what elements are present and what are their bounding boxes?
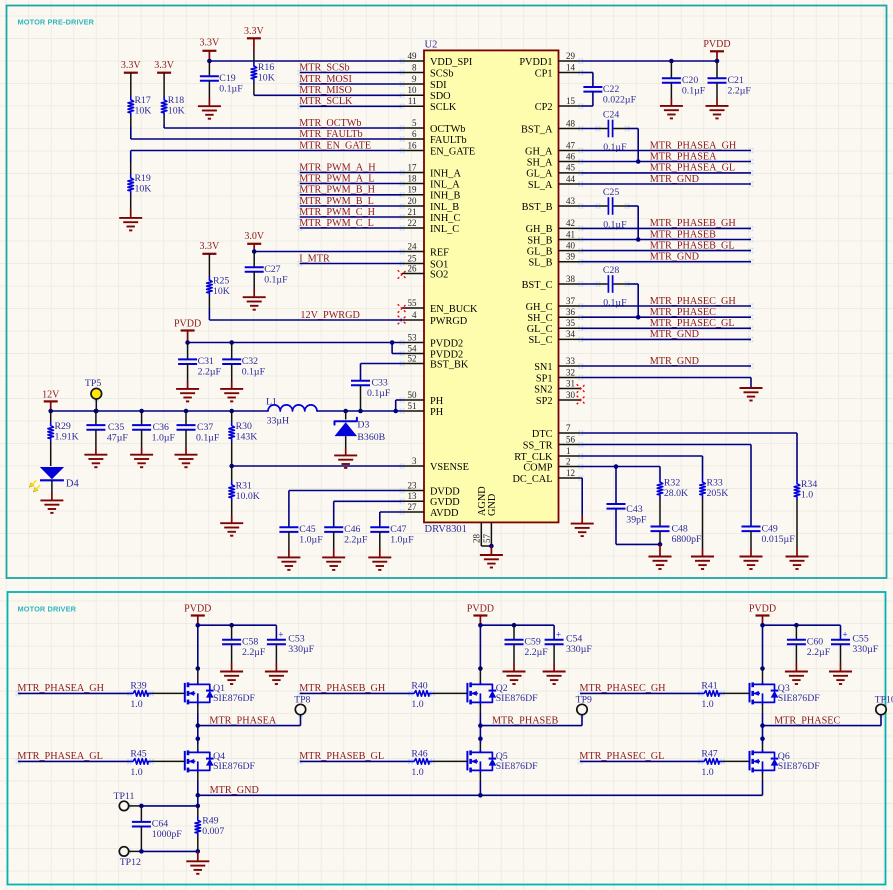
wire TP11 node bbox=[141, 805, 197, 807]
wire PVDD to Q drain bbox=[762, 625, 764, 668]
svg-text:DC_CAL: DC_CAL bbox=[512, 474, 552, 485]
svg-text:INL_C: INL_C bbox=[430, 224, 459, 235]
svg-text:SIE876DF: SIE876DF bbox=[496, 761, 538, 772]
svg-text:0.1µF: 0.1µF bbox=[196, 432, 220, 443]
svg-text:C32: C32 bbox=[242, 356, 258, 367]
svg-text:6800pF: 6800pF bbox=[672, 534, 702, 545]
ground for C45 bbox=[277, 556, 300, 558]
svg-text:1.0: 1.0 bbox=[130, 767, 142, 778]
svg-text:SL_C: SL_C bbox=[528, 335, 552, 346]
pin 9 SDI (left) bbox=[402, 83, 424, 85]
capacitor C27 0.1uF bbox=[253, 252, 255, 268]
capacitor C49 0.015uF bbox=[742, 526, 761, 528]
pin 25 SO1 (left) bbox=[402, 263, 424, 265]
svg-text:C25: C25 bbox=[603, 187, 619, 198]
capacitor C46 2.2uF bbox=[324, 526, 343, 528]
svg-text:PVDD: PVDD bbox=[174, 319, 201, 330]
svg-text:C27: C27 bbox=[264, 264, 280, 275]
svg-text:BST_A: BST_A bbox=[521, 124, 553, 135]
node PVDD junction bbox=[760, 623, 765, 628]
svg-text:MTR_PHASEA: MTR_PHASEA bbox=[650, 151, 717, 162]
wire GVDD pin 13 to C46 bbox=[334, 500, 402, 502]
svg-text:36: 36 bbox=[566, 307, 576, 317]
LED D4 emission arrows bbox=[29, 483, 38, 493]
svg-text:PVDD2: PVDD2 bbox=[430, 338, 463, 349]
svg-text:R45: R45 bbox=[130, 748, 146, 759]
svg-text:D3: D3 bbox=[357, 420, 369, 431]
svg-text:41: 41 bbox=[566, 229, 575, 239]
ground for AGND/GND bbox=[490, 546, 492, 555]
pin 23 DVDD (left) bbox=[402, 490, 424, 492]
power flag 3.0V bbox=[247, 243, 261, 245]
svg-text:12V_PWRGD: 12V_PWRGD bbox=[300, 310, 359, 321]
svg-text:REF: REF bbox=[430, 247, 449, 258]
resistor R25 10K bbox=[208, 254, 210, 277]
svg-text:INH_B: INH_B bbox=[430, 191, 460, 202]
wire TP12 node bbox=[141, 850, 197, 852]
svg-text:C22: C22 bbox=[603, 84, 619, 95]
transistor Q4 SIE876DF bbox=[184, 751, 186, 771]
svg-text:17: 17 bbox=[408, 162, 418, 172]
svg-text:R39: R39 bbox=[130, 680, 146, 691]
svg-text:3.3V: 3.3V bbox=[200, 241, 221, 252]
svg-text:50: 50 bbox=[408, 390, 418, 400]
svg-text:SDI: SDI bbox=[430, 80, 447, 91]
svg-text:42: 42 bbox=[566, 218, 575, 228]
capacitor C35 47uF bbox=[94, 409, 99, 414]
wire VSENSE to pin 3 bbox=[232, 465, 402, 467]
pin 44 SL_A (right) bbox=[559, 183, 581, 185]
svg-text:C24: C24 bbox=[603, 110, 619, 121]
svg-text:25: 25 bbox=[408, 253, 418, 263]
svg-text:20: 20 bbox=[408, 196, 418, 206]
svg-text:MTR_PHASEC_GL: MTR_PHASEC_GL bbox=[650, 318, 735, 329]
svg-text:GND: GND bbox=[487, 493, 498, 516]
svg-text:C47: C47 bbox=[390, 524, 406, 535]
svg-text:PVDD1: PVDD1 bbox=[519, 57, 552, 68]
capacitor C43 39pF bbox=[615, 467, 617, 505]
svg-text:2.2µF: 2.2µF bbox=[807, 647, 831, 658]
svg-text:0.1µF: 0.1µF bbox=[264, 275, 288, 286]
no-connect pin 4 bbox=[398, 316, 407, 325]
wire PVDD rail bbox=[763, 624, 841, 626]
resistor R45 1.0 (gate) bbox=[130, 759, 152, 765]
pin 43 BST_B (right) bbox=[559, 205, 581, 207]
svg-text:MTR_PHASEB_GL: MTR_PHASEB_GL bbox=[650, 240, 735, 251]
pin 55 EN_BUCK (left) bbox=[402, 307, 424, 309]
svg-text:32: 32 bbox=[566, 367, 575, 377]
svg-text:2: 2 bbox=[566, 456, 571, 466]
no-connect pin 55 bbox=[398, 304, 407, 313]
svg-text:MOTOR PRE-DRIVER: MOTOR PRE-DRIVER bbox=[18, 18, 95, 27]
svg-text:MTR_PWM_C_L: MTR_PWM_C_L bbox=[299, 218, 374, 229]
svg-text:GL_B: GL_B bbox=[527, 246, 553, 257]
capacitor C20 0.1uF bbox=[670, 61, 672, 78]
svg-text:MTR_GND: MTR_GND bbox=[210, 785, 259, 796]
capacitor C24 0.1µF bootstrap bbox=[581, 128, 598, 130]
pin 52 BST_BK (left) bbox=[402, 363, 424, 365]
pin 27 AVDD (left) bbox=[402, 511, 424, 513]
diode D3 B360B bbox=[343, 409, 348, 414]
capacitor C25 0.1µF bootstrap bbox=[581, 205, 598, 207]
svg-text:L1: L1 bbox=[266, 397, 277, 408]
svg-text:3.3V: 3.3V bbox=[200, 38, 221, 49]
svg-text:MTR_PHASEC: MTR_PHASEC bbox=[774, 715, 840, 726]
ground for R19 bbox=[119, 217, 142, 219]
svg-text:47µF: 47µF bbox=[107, 432, 128, 443]
wire DVDD pin 23 to C45 bbox=[289, 490, 402, 492]
svg-text:R16: R16 bbox=[258, 62, 274, 73]
capacitor C58 2.2uF bbox=[231, 625, 233, 640]
svg-text:TP12: TP12 bbox=[120, 857, 141, 868]
ground for C60 bbox=[785, 671, 808, 673]
sheet border MOTOR DRIVER section bbox=[8, 592, 886, 885]
svg-text:28: 28 bbox=[472, 534, 482, 544]
svg-text:C46: C46 bbox=[344, 524, 360, 535]
pin 13 GVDD (left) bbox=[402, 500, 424, 502]
pin 12 DC_CAL (right) bbox=[559, 477, 581, 479]
svg-text:GH_C: GH_C bbox=[526, 302, 553, 313]
resistor R31 10.0K bbox=[231, 466, 233, 482]
svg-text:EN_BUCK: EN_BUCK bbox=[430, 304, 478, 315]
pin 26 SO2 (left) bbox=[402, 273, 424, 275]
svg-text:28.0K: 28.0K bbox=[664, 488, 688, 499]
resistor R18 10K bbox=[163, 73, 165, 97]
wire PVDD to pin 53 bbox=[188, 342, 402, 344]
ground for C36 bbox=[130, 454, 153, 456]
resistor R29 1.91K bbox=[50, 411, 52, 422]
wire PVDD rail bbox=[480, 624, 554, 626]
svg-text:C37: C37 bbox=[197, 422, 213, 433]
svg-text:PVDD: PVDD bbox=[467, 604, 494, 615]
svg-text:SH_B: SH_B bbox=[527, 235, 552, 246]
resistor R49 0.007 bbox=[197, 806, 199, 817]
svg-text:3.0V: 3.0V bbox=[244, 231, 265, 242]
ground for C53 bbox=[265, 671, 288, 673]
svg-text:1.91K: 1.91K bbox=[55, 432, 79, 443]
pin 19 INH_B (left) bbox=[402, 194, 424, 196]
wire SS_TR pin 56 to C49 bbox=[581, 444, 751, 446]
capacitor C21 2.2uF bbox=[716, 61, 718, 78]
svg-text:DTC: DTC bbox=[532, 429, 553, 440]
svg-text:2.2µF: 2.2µF bbox=[198, 367, 222, 378]
svg-text:MTR_PHASEB_GL: MTR_PHASEB_GL bbox=[299, 751, 384, 762]
svg-text:12: 12 bbox=[566, 468, 575, 478]
svg-text:MTR_PHASEC: MTR_PHASEC bbox=[650, 307, 716, 318]
svg-text:AVDD: AVDD bbox=[430, 508, 459, 519]
pin 45 GL_A (right) bbox=[559, 172, 581, 174]
svg-text:1.0µF: 1.0µF bbox=[299, 535, 323, 546]
wire DC_CAL pin 12 to ground bbox=[581, 477, 582, 479]
power flag PVDD (Q1 leg) bbox=[191, 614, 205, 616]
svg-text:10K: 10K bbox=[168, 106, 185, 117]
wire pin 52 BST_BK to C33 bbox=[361, 363, 403, 365]
pin 54 PVDD2 (left) bbox=[402, 353, 424, 355]
svg-text:MTR_MISO: MTR_MISO bbox=[299, 85, 352, 96]
pin 48 BST_A (right) bbox=[559, 128, 581, 130]
svg-text:R33: R33 bbox=[707, 477, 723, 488]
ground for R49 bbox=[197, 851, 199, 861]
svg-text:31: 31 bbox=[566, 378, 575, 388]
transistor Q5 SIE876DF bbox=[466, 751, 468, 771]
svg-text:MTR_PHASEC_GH: MTR_PHASEC_GH bbox=[650, 296, 737, 307]
svg-text:VDD_SPI: VDD_SPI bbox=[430, 57, 473, 68]
svg-text:MTR_PHASEA: MTR_PHASEA bbox=[209, 715, 276, 726]
svg-text:51: 51 bbox=[408, 401, 417, 411]
pin 5 OCTWb (left) bbox=[402, 127, 424, 129]
svg-text:MTR_SCLK: MTR_SCLK bbox=[299, 96, 353, 107]
capacitor C22 0.022uF between CP1/CP2 bbox=[581, 72, 593, 74]
pin 38 BST_C (right) bbox=[559, 283, 581, 285]
ground for C54 bbox=[543, 671, 566, 673]
resistor R33 205K bbox=[700, 479, 706, 498]
svg-text:C54: C54 bbox=[566, 634, 582, 645]
wire MTR_GND bus bbox=[198, 794, 763, 796]
svg-text:52: 52 bbox=[408, 353, 417, 363]
svg-text:C60: C60 bbox=[807, 637, 823, 648]
svg-text:12V: 12V bbox=[42, 390, 60, 401]
pin 49 VDD_SPI (left) bbox=[402, 60, 424, 62]
capacitor C31 2.2uF bbox=[229, 340, 234, 345]
svg-text:1.0µF: 1.0µF bbox=[152, 432, 176, 443]
ground for R34 bbox=[786, 556, 809, 558]
svg-text:1.0: 1.0 bbox=[801, 490, 813, 501]
node PVDD junction bbox=[478, 623, 483, 628]
ground for D3 bbox=[334, 454, 357, 456]
svg-text:1.0: 1.0 bbox=[130, 699, 142, 710]
svg-text:R49: R49 bbox=[202, 815, 218, 826]
svg-text:PH: PH bbox=[430, 407, 444, 418]
svg-text:SH_C: SH_C bbox=[527, 313, 552, 324]
svg-text:C48: C48 bbox=[672, 523, 688, 534]
svg-text:143K: 143K bbox=[236, 432, 258, 443]
svg-text:+: + bbox=[556, 630, 561, 640]
pin 39 SL_B (right) bbox=[559, 261, 581, 263]
power flag 3.3V (R25) bbox=[202, 253, 216, 255]
svg-text:R18: R18 bbox=[168, 95, 184, 106]
wire R17 to MTR_FAULTb bbox=[130, 127, 132, 139]
svg-text:SL_A: SL_A bbox=[528, 180, 553, 191]
ground for C58 bbox=[220, 671, 243, 673]
svg-text:C49: C49 bbox=[762, 523, 778, 534]
wire SP1 to ground bbox=[581, 377, 751, 379]
ground for C35 bbox=[84, 454, 107, 456]
node 12V/PH rail junction bbox=[48, 409, 53, 414]
pin 21 INH_C (left) bbox=[402, 216, 424, 218]
node COMP/C43 junction bbox=[614, 464, 619, 469]
svg-text:10K: 10K bbox=[213, 286, 230, 297]
ground for C49 bbox=[740, 556, 763, 558]
ground for C19 bbox=[198, 105, 221, 107]
pin 8 SCSb (left) bbox=[402, 72, 424, 74]
svg-text:3.3V: 3.3V bbox=[244, 26, 265, 37]
transistor Q1 SIE876DF bbox=[184, 683, 186, 703]
resistor R32 28.0K bbox=[659, 467, 661, 479]
wire AVDD pin 27 to C47 bbox=[380, 511, 402, 513]
svg-text:TP5: TP5 bbox=[85, 378, 101, 389]
svg-text:R29: R29 bbox=[55, 421, 71, 432]
svg-text:49: 49 bbox=[408, 51, 418, 61]
pin 28 AGND (bottom) bbox=[480, 523, 482, 547]
svg-text:38: 38 bbox=[566, 274, 576, 284]
svg-text:10K: 10K bbox=[135, 184, 152, 195]
pin 30 SP2 (right) bbox=[559, 399, 581, 401]
wire 3.0V to pin 24 REF bbox=[254, 251, 402, 253]
svg-text:33: 33 bbox=[566, 356, 576, 366]
svg-text:C28: C28 bbox=[603, 265, 619, 276]
svg-text:RT_CLK: RT_CLK bbox=[514, 452, 553, 463]
power flag PVDD (pre-driver) bbox=[181, 329, 195, 331]
svg-text:0.1µF: 0.1µF bbox=[219, 84, 243, 95]
svg-text:MTR_EN_GATE: MTR_EN_GATE bbox=[299, 140, 371, 151]
wire PVDD to Q drain bbox=[197, 625, 199, 668]
pin 1 RT_CLK (right) bbox=[559, 455, 581, 457]
svg-text:37: 37 bbox=[566, 296, 576, 306]
ground for C59 bbox=[503, 671, 526, 673]
wire 3.3V to pin 49 bbox=[209, 60, 402, 62]
node PVDD junction bbox=[196, 623, 201, 628]
pin 7 DTC (right) bbox=[559, 432, 581, 434]
LED D4 bbox=[40, 467, 64, 479]
svg-text:R46: R46 bbox=[411, 748, 427, 759]
svg-text:SO2: SO2 bbox=[430, 269, 448, 280]
pin 2 COMP (right) bbox=[559, 466, 581, 468]
svg-text:MTR_PHASEB_GH: MTR_PHASEB_GH bbox=[650, 218, 737, 229]
svg-text:0.1µF: 0.1µF bbox=[603, 298, 627, 309]
svg-text:INH_C: INH_C bbox=[430, 213, 460, 224]
svg-text:C58: C58 bbox=[242, 637, 258, 648]
svg-text:53: 53 bbox=[408, 332, 418, 342]
pin 46 SH_A (right) bbox=[559, 161, 581, 163]
svg-text:55: 55 bbox=[408, 298, 418, 308]
node MTR_PHASEB junction bbox=[478, 723, 483, 728]
svg-text:GVDD: GVDD bbox=[430, 497, 460, 508]
svg-text:R40: R40 bbox=[411, 680, 427, 691]
svg-text:INH_A: INH_A bbox=[430, 168, 461, 179]
pin 57 GND (bottom) bbox=[490, 523, 492, 547]
svg-text:330µF: 330µF bbox=[566, 644, 592, 655]
wire DTC pin 7 to R34 bbox=[581, 432, 797, 434]
wire L1 to PH pins bbox=[317, 410, 402, 412]
svg-text:27: 27 bbox=[408, 502, 418, 512]
svg-text:SDO: SDO bbox=[430, 91, 451, 102]
svg-text:R31: R31 bbox=[236, 480, 252, 491]
svg-text:+: + bbox=[842, 630, 847, 640]
svg-text:SIE876DF: SIE876DF bbox=[778, 761, 820, 772]
svg-text:330µF: 330µF bbox=[288, 644, 314, 655]
pin 20 INL_B (left) bbox=[402, 205, 424, 207]
svg-text:C59: C59 bbox=[524, 637, 540, 648]
power flag PVDD (top right) bbox=[710, 50, 724, 52]
svg-text:R17: R17 bbox=[135, 95, 151, 106]
svg-text:MTR_PHASEB: MTR_PHASEB bbox=[650, 229, 716, 240]
svg-text:C19: C19 bbox=[219, 73, 235, 84]
svg-text:DRV8301: DRV8301 bbox=[425, 524, 467, 535]
resistor R40 1.0 (gate) bbox=[411, 691, 433, 697]
inductor L1 33uH bbox=[268, 405, 317, 411]
wire R18 to MTR_OCTWb bbox=[163, 124, 165, 128]
svg-text:SN2: SN2 bbox=[534, 384, 552, 395]
wire Q4 source to MTR_GND bus bbox=[197, 772, 199, 781]
ground for R33 bbox=[691, 556, 714, 558]
pin 33 SN1 (right) bbox=[559, 365, 581, 367]
svg-text:39pF: 39pF bbox=[626, 515, 647, 526]
svg-text:MTR_OCTWb: MTR_OCTWb bbox=[299, 118, 361, 129]
pin 47 GH_A (right) bbox=[559, 150, 581, 152]
svg-text:GH_B: GH_B bbox=[526, 224, 553, 235]
power flag 3.3V (R17) bbox=[124, 72, 138, 74]
wire COMP pin 2 to C43 and R32 bbox=[581, 466, 660, 468]
pin 51 PH (left) bbox=[402, 410, 424, 412]
pin 53 PVDD2 (left) bbox=[402, 342, 424, 344]
svg-text:35: 35 bbox=[566, 318, 576, 328]
pin 42 GH_B (right) bbox=[559, 227, 581, 229]
pin 18 INL_A (left) bbox=[402, 183, 424, 185]
svg-text:0.1µF: 0.1µF bbox=[242, 367, 266, 378]
pin 41 SH_B (right) bbox=[559, 239, 581, 241]
svg-text:1000pF: 1000pF bbox=[152, 829, 182, 840]
svg-text:COMP: COMP bbox=[523, 462, 552, 473]
svg-text:R25: R25 bbox=[213, 275, 229, 286]
svg-text:22: 22 bbox=[408, 218, 417, 228]
wire 12V rail to L1 bbox=[51, 410, 268, 412]
svg-text:1.0µF: 1.0µF bbox=[390, 535, 414, 546]
node C48/C43 junction bbox=[658, 542, 663, 547]
svg-text:MTR_SCSb: MTR_SCSb bbox=[299, 62, 349, 73]
svg-text:1.0: 1.0 bbox=[411, 699, 423, 710]
node VDD_SPI junction bbox=[207, 59, 212, 64]
svg-text:MTR_GND: MTR_GND bbox=[650, 329, 699, 340]
svg-text:19: 19 bbox=[408, 185, 418, 195]
testpoint TP12 bbox=[119, 847, 128, 856]
svg-text:MTR_GND: MTR_GND bbox=[650, 174, 699, 185]
svg-text:330µF: 330µF bbox=[852, 644, 878, 655]
svg-text:C21: C21 bbox=[728, 75, 744, 86]
svg-text:VSENSE: VSENSE bbox=[430, 462, 469, 473]
svg-text:5: 5 bbox=[412, 118, 417, 128]
capacitor C45 1.0uF bbox=[279, 526, 298, 528]
pin 37 GH_C (right) bbox=[559, 305, 581, 307]
wire MTR_EN_GATE to R19 bbox=[131, 150, 402, 152]
wire PH branch pin 50 bbox=[393, 409, 398, 414]
svg-text:16: 16 bbox=[408, 140, 418, 150]
wire Q1 source to Q4 drain bbox=[197, 704, 199, 713]
svg-text:MTR_FAULTb: MTR_FAULTb bbox=[299, 129, 362, 140]
svg-text:SCLK: SCLK bbox=[430, 102, 457, 113]
capacitor C55 330uF polarized bbox=[840, 625, 842, 640]
svg-text:R19: R19 bbox=[135, 173, 151, 184]
svg-text:57: 57 bbox=[482, 534, 492, 544]
svg-text:34: 34 bbox=[566, 329, 576, 339]
svg-text:14: 14 bbox=[566, 62, 576, 72]
svg-text:56: 56 bbox=[566, 434, 576, 444]
ground for C47 bbox=[368, 556, 391, 558]
op-amp U1 IC U2 DRV8301 body bbox=[424, 50, 559, 522]
ground for D4 bbox=[40, 499, 63, 501]
svg-text:R32: R32 bbox=[664, 477, 680, 488]
resistor R41 1.0 (gate) bbox=[701, 691, 723, 697]
transistor Q2 SIE876DF bbox=[466, 683, 468, 703]
resistor R17 10K bbox=[130, 73, 132, 97]
svg-text:10.0K: 10.0K bbox=[236, 491, 260, 502]
svg-text:0.1µF: 0.1µF bbox=[603, 142, 627, 153]
svg-text:BST_BK: BST_BK bbox=[430, 359, 469, 370]
capacitor C64 1000pF bbox=[140, 806, 142, 822]
svg-text:29: 29 bbox=[566, 51, 576, 61]
capacitor C53 330uF polarized bbox=[275, 625, 277, 640]
svg-text:1.0: 1.0 bbox=[701, 699, 713, 710]
svg-text:PWRGD: PWRGD bbox=[430, 316, 468, 327]
